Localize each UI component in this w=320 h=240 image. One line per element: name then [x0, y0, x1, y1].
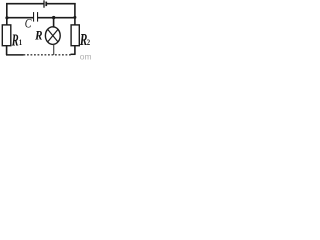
svg-text:om: om [80, 52, 91, 60]
svg-text:C: C [25, 17, 32, 30]
svg-text:1: 1 [19, 39, 23, 48]
svg-text:R: R [11, 31, 19, 49]
svg-text:R: R [34, 29, 42, 43]
svg-text:2: 2 [87, 38, 91, 47]
